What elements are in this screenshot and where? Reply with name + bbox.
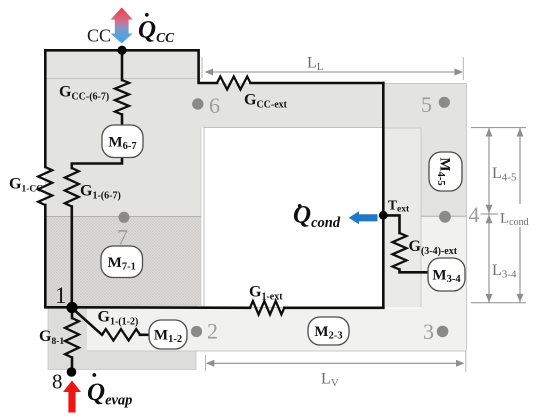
svg-text:3: 3 xyxy=(423,319,434,344)
svg-text:6: 6 xyxy=(209,93,220,118)
svg-text:8: 8 xyxy=(52,370,63,394)
svg-text:7: 7 xyxy=(117,225,128,250)
svg-text:4: 4 xyxy=(469,202,480,227)
svg-text:1: 1 xyxy=(55,283,67,308)
svg-text:CC: CC xyxy=(87,26,111,46)
svg-text:2: 2 xyxy=(207,319,218,344)
svg-text:5: 5 xyxy=(421,92,432,117)
